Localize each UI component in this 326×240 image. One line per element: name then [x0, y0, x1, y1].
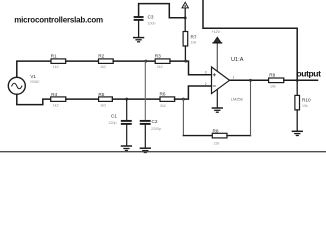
svg-text:R9: R9: [269, 72, 275, 77]
wire R2 to R3: [113, 60, 155, 62]
resistor R10: [295, 95, 300, 110]
power +12V arrow (op-amp supply): [213, 37, 222, 71]
svg-text:R4: R4: [51, 92, 57, 97]
resistor R9: [269, 78, 284, 83]
node output of op-amp: [249, 79, 252, 82]
op-amp U1:A: [212, 67, 230, 94]
capacitor C2: [141, 121, 150, 148]
svg-text:microcontrollerslab.com: microcontrollerslab.com: [14, 15, 103, 24]
svg-text:3: 3: [205, 71, 207, 75]
node C1 junction: [125, 98, 128, 101]
wire R3 to op-amp pin3: [170, 61, 212, 75]
svg-text:V1: V1: [30, 74, 36, 79]
svg-text:2200p: 2200p: [151, 127, 161, 131]
svg-text:2k2: 2k2: [157, 65, 163, 69]
wire R10 to ground: [296, 110, 298, 131]
svg-text:R10: R10: [302, 98, 311, 103]
ground (below C2): [140, 148, 150, 152]
svg-text:R3: R3: [155, 53, 161, 58]
resistor R8: [212, 133, 227, 138]
wire R6 to op-amp pin2: [175, 86, 212, 99]
voltage source V1: [8, 77, 25, 94]
svg-text:220p: 220p: [109, 121, 117, 125]
svg-text:100n: 100n: [148, 22, 156, 26]
svg-text:1: 1: [233, 75, 235, 79]
wire R5 to R6: [112, 98, 160, 100]
svg-text:C3: C3: [148, 15, 154, 20]
svg-text:R8: R8: [213, 129, 219, 134]
resistor R2: [99, 59, 114, 64]
wire R7 to pin3 node: [184, 46, 186, 61]
wire V1 top stub: [17, 61, 51, 77]
ground (below op-amp): [212, 108, 222, 112]
svg-text:1k2: 1k2: [53, 65, 59, 69]
plus mark: [213, 74, 215, 76]
wire R9 to output: [284, 79, 318, 81]
wire +12V node to R7: [184, 18, 186, 32]
node feedback junction: [182, 98, 185, 101]
wire R4 to R5: [66, 98, 99, 100]
svg-text:22k: 22k: [214, 141, 220, 145]
svg-text:2: 2: [205, 82, 207, 86]
wire top-right loop: [203, 0, 297, 80]
svg-text:R7: R7: [191, 35, 197, 40]
wire op-amp output to R9: [230, 79, 269, 81]
wire R1 to R2: [66, 60, 99, 62]
resistor R7: [183, 32, 188, 47]
wire C2 from R2/R3 node down: [144, 61, 146, 121]
svg-text:1k2: 1k2: [53, 104, 59, 108]
wire op-amp V- pin to ground: [216, 90, 218, 108]
resistor R1: [51, 59, 66, 64]
svg-text:10k: 10k: [302, 104, 308, 108]
wire feedback down to R8: [182, 99, 184, 136]
resistor R6: [160, 97, 175, 102]
capacitor C3: [135, 17, 143, 37]
resistor R3: [155, 59, 170, 64]
svg-text:2k2: 2k2: [160, 104, 166, 108]
power +12V arrow (top): [182, 2, 188, 17]
wire output node to R10: [296, 80, 298, 95]
svg-text:R5: R5: [98, 92, 104, 97]
ground (below C1): [122, 146, 132, 151]
svg-text:output: output: [297, 69, 322, 79]
svg-text:10k: 10k: [191, 40, 197, 44]
svg-text:R1: R1: [51, 53, 57, 58]
node +12V junction: [184, 16, 187, 19]
svg-text:LM258: LM258: [231, 97, 243, 102]
svg-text:1k2: 1k2: [100, 65, 106, 69]
minus mark: [213, 85, 215, 87]
node output net junction: [296, 79, 299, 82]
svg-text:R6: R6: [160, 92, 166, 97]
svg-text:C1: C1: [111, 114, 117, 119]
wire V1 bottom to R4: [17, 94, 51, 104]
sheet border line: [0, 151, 326, 153]
ground (below C3): [134, 38, 144, 42]
svg-text:U1:A: U1:A: [231, 57, 244, 63]
svg-text:R2: R2: [98, 53, 104, 58]
svg-text:C2: C2: [152, 119, 158, 124]
node R2/R3/C2 junction: [144, 60, 147, 63]
svg-text:1k2: 1k2: [100, 104, 106, 108]
node R7/pin3 junction: [184, 60, 187, 63]
ground (below R10): [292, 131, 302, 135]
svg-text:+12V: +12V: [212, 30, 221, 34]
svg-text:VSINE: VSINE: [30, 80, 40, 84]
resistor R4: [51, 97, 66, 102]
svg-text:10k: 10k: [270, 85, 276, 89]
wire R8 to output node: [227, 135, 251, 137]
resistor R5: [99, 97, 113, 102]
capacitor C1: [122, 99, 131, 146]
wire C3 top to +12V node: [139, 4, 186, 18]
